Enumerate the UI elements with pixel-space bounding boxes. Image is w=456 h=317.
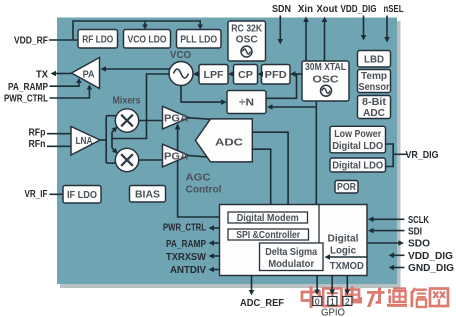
box Digital LDO (330, 158, 386, 172)
svg-text:LPF: LPF (204, 70, 224, 81)
wire VDD_RF rail (73, 21, 201, 40)
svg-text:VCO: VCO (170, 50, 191, 61)
wire GPIO1 (331, 276, 333, 291)
svg-text:VDD_DIG: VDD_DIG (341, 3, 377, 15)
svg-text:OSC: OSC (236, 35, 258, 46)
svg-text:SDI: SDI (408, 225, 422, 237)
svg-text:RFp: RFp (29, 127, 46, 139)
arrowhead LO mixer2 (112, 148, 118, 154)
wire VR_DIG (393, 153, 407, 155)
box BIAS (130, 186, 166, 203)
svg-text:PA_RAMP: PA_RAMP (166, 238, 206, 250)
svg-text:Xout: Xout (317, 3, 338, 15)
wire CP to LPF (232, 73, 235, 75)
svg-text:SPI &Controller: SPI &Controller (236, 230, 300, 241)
node GPIO0 (313, 297, 322, 306)
box PLL LDO (177, 30, 222, 49)
wire Xout (324, 21, 326, 61)
wire LO diag to mixer1 (112, 130, 115, 133)
svg-text:ADC: ADC (215, 137, 243, 148)
pin GND_DIG (394, 267, 405, 269)
wire ADC out lower (252, 149, 270, 207)
box RC 32K OSC (228, 21, 266, 61)
wire TXMOD to delta sigma (330, 256, 367, 258)
amp LNA (71, 127, 100, 156)
mixer M2 (115, 148, 138, 171)
svg-text:TX: TX (36, 69, 48, 81)
wire mixer2 to PGA2 (139, 159, 163, 161)
wire RFn (47, 145, 71, 147)
oscillator VCO (169, 62, 193, 86)
svg-text:VR_IF: VR_IF (25, 188, 48, 200)
box Low Power Digital LDO (330, 126, 386, 153)
svg-text:Digital LDO: Digital LDO (332, 160, 383, 171)
svg-text:SDN: SDN (272, 3, 291, 15)
pin SDO (367, 242, 399, 244)
chip body (57, 18, 397, 285)
wire rail arrow VCO LDO (144, 21, 146, 25)
wire nSEL (386, 16, 388, 39)
wire GPIO0 (316, 276, 318, 291)
chip shadow (60, 21, 401, 288)
box PFD (262, 65, 291, 85)
svg-text:Mixers: Mixers (113, 96, 141, 107)
svg-text:30M XTAL: 30M XTAL (305, 62, 346, 73)
box LBD (358, 51, 391, 68)
svg-text:ANTDIV: ANTDIV (170, 264, 206, 276)
amp PGA2 (163, 144, 190, 167)
pin SCLK (373, 218, 405, 220)
svg-text:CP: CP (238, 70, 253, 81)
wire VDD_RF (49, 39, 78, 41)
watermark 中国电力通信网 (302, 287, 448, 309)
box Delta Sigma Modulator (260, 243, 324, 271)
通 (387, 287, 407, 307)
svg-text:TXRXSW: TXRXSW (166, 251, 206, 263)
svg-text:VDD_RF: VDD_RF (14, 35, 48, 47)
svg-text:LBD: LBD (364, 54, 384, 65)
wire VCO to divider (181, 86, 222, 103)
wire ADC out upper (252, 132, 288, 207)
svg-text:Modulator: Modulator (268, 259, 314, 270)
svg-text:Digital LDO: Digital LDO (332, 141, 383, 152)
网 (430, 289, 448, 307)
wire PGA1 to ADC (189, 118, 211, 120)
amp PGA1 (163, 106, 190, 129)
svg-text:PGA: PGA (164, 151, 188, 162)
box IF LDO (63, 186, 101, 204)
svg-text:PWR_CTRL: PWR_CTRL (163, 222, 206, 234)
svg-text:IF LDO: IF LDO (67, 190, 97, 201)
svg-text:2: 2 (345, 296, 350, 306)
svg-text:0: 0 (315, 296, 320, 306)
transistor-amp PA (72, 58, 100, 89)
svg-text:Control: Control (186, 184, 222, 195)
svg-text:VCO LDO: VCO LDO (128, 34, 167, 45)
svg-text:Xin: Xin (298, 3, 313, 15)
svg-text:nSEL: nSEL (384, 3, 404, 15)
wire PFD to CP (262, 73, 263, 75)
wire LPF to VCO (198, 73, 199, 75)
svg-text:ADC: ADC (363, 108, 385, 119)
box 30M XTAL OSC (302, 61, 349, 101)
国 (323, 289, 341, 307)
信 (411, 287, 427, 307)
wire VR_IF (50, 193, 64, 195)
svg-text:PA_RAMP: PA_RAMP (8, 81, 48, 93)
svg-text:SDO: SDO (408, 238, 430, 250)
svg-text:PLL LDO: PLL LDO (180, 34, 217, 45)
svg-text:AGC: AGC (186, 172, 211, 183)
svg-text:Low Power: Low Power (334, 129, 381, 140)
node GPIO1 (328, 297, 337, 306)
divider N box (227, 91, 266, 114)
wire LO drop (112, 74, 170, 139)
svg-text:8-Bit: 8-Bit (362, 97, 387, 108)
svg-text:Temp: Temp (361, 71, 387, 82)
wire VCO to PA (106, 68, 170, 70)
svg-text:1: 1 (330, 296, 335, 306)
converter ADC (195, 119, 252, 162)
box 8-Bit ADC (358, 96, 391, 119)
svg-text:SCLK: SCLK (408, 214, 429, 226)
pin SDI (373, 230, 405, 232)
svg-text:OSC: OSC (313, 75, 339, 86)
pin VDD_DIG right (394, 254, 405, 256)
中 (302, 287, 320, 309)
电 (346, 287, 362, 304)
wire PWR_CTRL (50, 89, 90, 98)
wire RFp (47, 133, 71, 135)
svg-text:GPIO: GPIO (321, 307, 345, 317)
svg-text:LNA: LNA (76, 136, 93, 147)
box Temp Sensor (358, 70, 391, 93)
svg-text:PFD: PFD (265, 70, 287, 81)
svg-text:RF LDO: RF LDO (82, 34, 113, 45)
wire GPIO2 (346, 276, 348, 291)
wire AGC vertical (178, 125, 220, 218)
arrowhead LO mixer1 (112, 127, 118, 133)
wire Xin (305, 21, 307, 61)
wire PGA2 to ADC (189, 156, 208, 157)
svg-text:GND_DIG: GND_DIG (408, 262, 454, 274)
node GPIO2 (343, 297, 352, 306)
力 (367, 288, 385, 308)
svg-text:Digital: Digital (328, 233, 359, 244)
svg-text:Delta Sigma: Delta Sigma (265, 247, 317, 258)
divider line (318, 205, 320, 244)
box RF LDO (78, 30, 118, 49)
svg-text:PGA: PGA (164, 114, 188, 125)
wire SDN (279, 16, 281, 41)
svg-text:RFn: RFn (29, 138, 46, 150)
wire LNA out split (100, 139, 106, 141)
svg-text:Digital Modem: Digital Modem (237, 213, 299, 224)
box Digital Logic container (220, 205, 368, 276)
svg-text:Sensor: Sensor (359, 82, 390, 93)
svg-text:VDD_DIG: VDD_DIG (408, 250, 453, 262)
svg-text:TXMOD: TXMOD (330, 261, 364, 272)
wire xtal down to digital (315, 101, 317, 205)
svg-text:POR: POR (337, 182, 357, 193)
svg-text:BIAS: BIAS (135, 189, 160, 200)
wire XTAL to PFD (296, 73, 303, 75)
box CP (234, 65, 258, 85)
wire TX (56, 73, 72, 75)
box SPI &Controller (228, 229, 309, 240)
wire PA_RAMP (50, 82, 79, 86)
svg-text:VR_DIG: VR_DIG (406, 149, 439, 161)
wire VR_DIG bracket (386, 144, 394, 167)
svg-text:ADC_REF: ADC_REF (240, 297, 285, 309)
box Digital Modem (228, 212, 308, 223)
symbol sine RC OSC (241, 46, 252, 57)
pin ADC_REF (251, 276, 253, 292)
box VCO LDO (124, 30, 171, 49)
svg-text:PA: PA (83, 70, 95, 81)
box POR (335, 181, 358, 194)
wire VDD_DIG top (363, 16, 365, 37)
svg-text:Logic: Logic (330, 245, 356, 256)
box LPF (199, 65, 228, 85)
svg-text:PWR_CTRL: PWR_CTRL (4, 93, 48, 105)
svg-text:RC 32K: RC 32K (231, 24, 263, 35)
wire xtal clock to divider (273, 106, 317, 108)
mixer M1 (115, 109, 138, 132)
wire divider feedback (266, 74, 297, 98)
svg-text:÷N: ÷N (239, 98, 254, 109)
wire mixer1 to PGA1 (139, 120, 163, 122)
wire LO diag to mixer2 (112, 148, 115, 151)
wire rail arrow PLL LDO (199, 21, 201, 25)
